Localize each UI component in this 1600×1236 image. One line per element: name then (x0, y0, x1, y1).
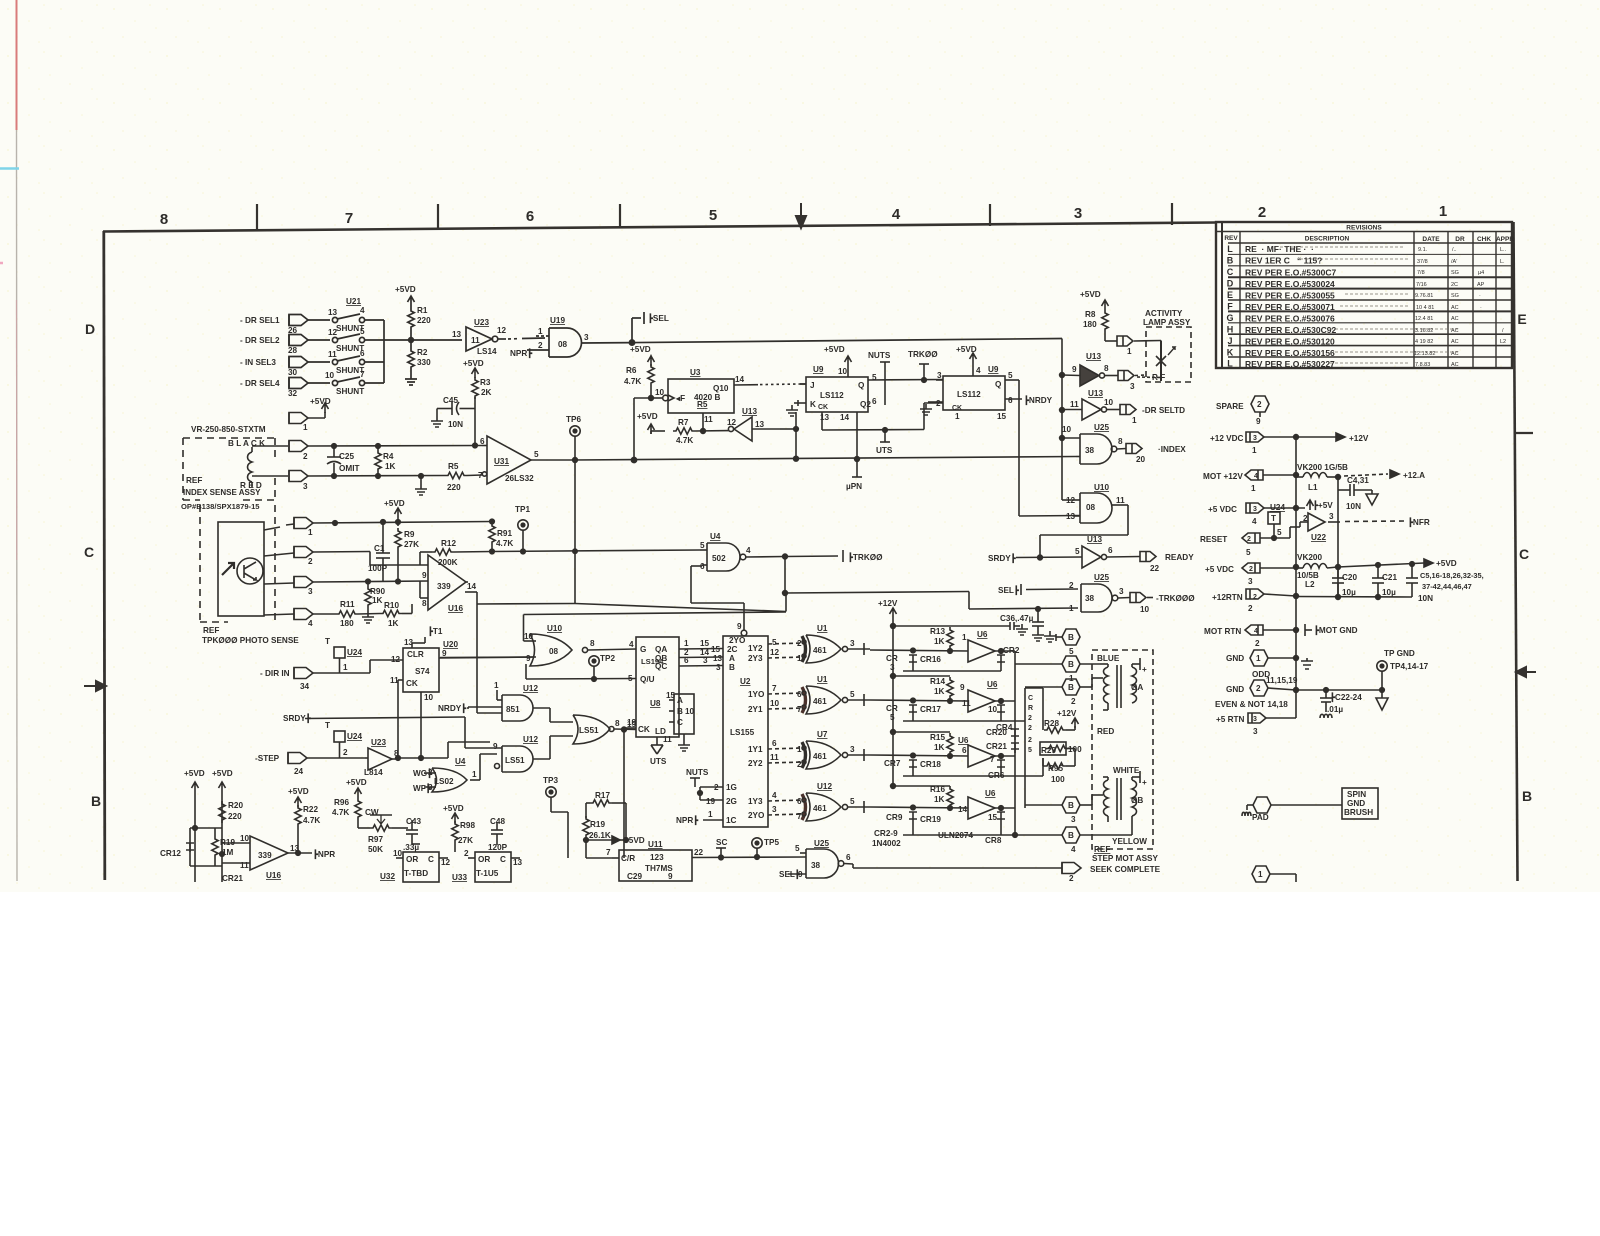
svg-text:4.7K: 4.7K (676, 436, 693, 445)
svg-text:U24: U24 (347, 648, 362, 657)
OR gate U10 08 (440, 612, 786, 666)
svg-text:100: 100 (1051, 775, 1065, 784)
svg-text:5: 5 (709, 207, 717, 224)
svg-text:-DR SELTD: -DR SELTD (1142, 406, 1185, 415)
svg-text:15: 15 (666, 691, 676, 700)
svg-text:B: B (1068, 660, 1074, 669)
svg-text:9.76.81: 9.76.81 (1415, 293, 1433, 299)
ruler arrow down at col 4/5 (796, 203, 806, 228)
svg-text:10: 10 (424, 693, 434, 702)
svg-text:1G: 1G (726, 783, 737, 792)
svg-text:1: 1 (1252, 446, 1257, 455)
svg-text:13: 13 (513, 858, 523, 867)
svg-text:K: K (810, 400, 816, 409)
svg-text:SRDY┣: SRDY┣ (988, 553, 1017, 564)
svg-text:GND: GND (1226, 685, 1244, 694)
svg-text:7: 7 (990, 755, 995, 764)
test point TP3 (546, 787, 568, 858)
svg-text:2: 2 (1303, 514, 1308, 523)
svg-text:+12V: +12V (1057, 709, 1077, 718)
photo transistor box (218, 522, 264, 616)
XOR gate U7a 461 (802, 741, 870, 769)
svg-text:8: 8 (615, 719, 620, 728)
svg-text:UTS: UTS (876, 446, 893, 455)
svg-text:5: 5 (872, 373, 877, 382)
svg-text:U1: U1 (817, 675, 828, 684)
svg-text:2: 2 (1255, 639, 1260, 648)
svg-text:6: 6 (846, 853, 851, 862)
one-shot U33 (468, 852, 520, 882)
dashed box index sense assy (183, 438, 275, 500)
svg-text:6: 6 (480, 437, 485, 446)
svg-text:10: 10 (325, 371, 335, 380)
svg-text:SPIN: SPIN (1347, 790, 1366, 799)
svg-text:34: 34 (300, 682, 310, 691)
svg-text:U25: U25 (1094, 423, 1109, 432)
svg-text:1: 1 (1251, 484, 1256, 493)
wire row1 to R9 top (313, 520, 492, 526)
svg-text:9: 9 (442, 649, 447, 658)
svg-text:U4: U4 (710, 532, 721, 541)
svg-text:6: 6 (772, 739, 777, 748)
svg-text:2YO: 2YO (748, 811, 765, 820)
svg-text:2: 2 (1249, 566, 1253, 573)
svg-text:F: F (1227, 302, 1233, 312)
svg-text:6: 6 (797, 797, 802, 806)
svg-text:WHITE: WHITE (1113, 766, 1140, 775)
NAND gate U4 502 (700, 543, 787, 571)
svg-text:NUTS: NUTS (686, 768, 709, 777)
svg-text:Q: Q (858, 381, 865, 390)
svg-text:4.7K: 4.7K (332, 808, 349, 817)
connector MOT+12V (1245, 470, 1296, 480)
svg-text:+: + (1142, 778, 1147, 787)
svg-text:·: · (1479, 293, 1481, 299)
svg-text:461: 461 (813, 697, 827, 706)
svg-text:B L A C K: B L A C K (228, 439, 265, 448)
scanner edge stripe (0, 0, 19, 881)
wire UTS row (822, 403, 943, 442)
pot R97 50K (370, 815, 408, 831)
svg-text:SHUNT: SHUNT (336, 344, 364, 353)
svg-text:R95: R95 (1048, 764, 1063, 773)
svg-text:1K: 1K (385, 462, 396, 471)
node SEL riser (629, 312, 644, 345)
vertical CR22-25 note (1028, 695, 1033, 754)
svg-text:4: 4 (360, 306, 365, 315)
svg-text:13: 13 (328, 308, 338, 317)
svg-text:U13: U13 (1086, 352, 1101, 361)
svg-text:R28: R28 (1044, 719, 1059, 728)
svg-text:RE · MF· THE · ·: RE · MF· THE · · (1245, 244, 1314, 254)
svg-text:VR-250-850-STXTM: VR-250-850-STXTM (191, 425, 266, 434)
svg-text:3: 3 (716, 663, 721, 672)
ruler ticks (257, 203, 1533, 433)
svg-text:L1: L1 (1308, 483, 1318, 492)
svg-text:TP5: TP5 (764, 838, 779, 847)
svg-text:32: 32 (288, 389, 298, 398)
svg-text:12: 12 (727, 418, 737, 427)
diode CR12 loop (186, 828, 222, 866)
svg-text:3: 3 (1329, 512, 1334, 521)
svg-text:L2: L2 (1305, 580, 1315, 589)
svg-text:2: 2 (343, 748, 348, 757)
svg-text:10: 10 (685, 707, 695, 716)
svg-text:R90: R90 (370, 587, 385, 596)
comparator U16 339 (428, 555, 468, 610)
svg-text:RESET: RESET (1200, 535, 1227, 544)
svg-text:C36,.47µ: C36,.47µ (1000, 614, 1034, 623)
svg-text:REV PER E.O.#530156: REV PER E.O.#530156 (1245, 348, 1335, 358)
svg-text:+5VD: +5VD (1436, 559, 1457, 568)
svg-text:B: B (677, 707, 683, 716)
svg-text:461: 461 (813, 804, 827, 813)
XOR gate U1a 461 (802, 635, 870, 663)
svg-text:U10: U10 (547, 624, 562, 633)
svg-text:+5VD: +5VD (463, 359, 484, 368)
svg-text:851: 851 (506, 705, 520, 714)
svg-text:6: 6 (684, 656, 689, 665)
svg-text:U13: U13 (1088, 389, 1103, 398)
wire U16 out down-tee (465, 592, 786, 713)
svg-text:502: 502 (712, 554, 726, 563)
svg-text:10: 10 (240, 834, 250, 843)
svg-text:7.8.83: 7.8.83 (1415, 362, 1430, 368)
spare connector (1251, 396, 1269, 417)
svg-text:- DR SEL4: - DR SEL4 (240, 379, 280, 388)
svg-text:22: 22 (694, 848, 704, 857)
svg-text:10: 10 (655, 388, 665, 397)
svg-text:C: C (428, 855, 434, 864)
svg-text:2: 2 (1248, 604, 1253, 613)
svg-text:LS155: LS155 (730, 728, 755, 737)
svg-text:2: 2 (428, 768, 433, 777)
svg-text:MOT RTN: MOT RTN (1204, 627, 1241, 636)
svg-text:TP3: TP3 (543, 776, 558, 785)
decoder U2 LS155 (691, 566, 803, 827)
svg-text:REF: REF (186, 476, 202, 485)
svg-text:µ4: µ4 (1478, 270, 1484, 276)
resistor R17 (586, 800, 626, 840)
coil index sensor (248, 447, 253, 487)
svg-text:U13: U13 (1087, 535, 1102, 544)
svg-text:CR21: CR21 (222, 874, 243, 883)
svg-text:1: 1 (1069, 604, 1074, 613)
svg-text:50K: 50K (368, 845, 383, 854)
svg-text:CR21: CR21 (986, 742, 1007, 751)
svg-text:27K: 27K (458, 836, 473, 845)
svg-text:Q/U: Q/U (640, 675, 655, 684)
svg-text:3: 3 (1253, 716, 1257, 723)
T-box U24d (1268, 512, 1280, 540)
svg-text:+5 VDC: +5 VDC (1208, 505, 1237, 514)
svg-text:1: 1 (1439, 203, 1447, 220)
resistor R1 220 (408, 296, 415, 340)
svg-text:5: 5 (850, 690, 855, 699)
svg-text:B: B (1522, 788, 1532, 804)
connector J1-26 -DR SEL1 (289, 315, 330, 326)
svg-text:100: 100 (1068, 745, 1082, 754)
svg-text:T-TBD: T-TBD (404, 869, 428, 878)
svg-text:-TRKØØØ: -TRKØØØ (1156, 594, 1195, 603)
svg-text:R5: R5 (697, 400, 708, 409)
svg-text:3: 3 (1071, 815, 1076, 824)
svg-text:A: A (729, 654, 735, 663)
svg-text:14: 14 (840, 413, 850, 422)
svg-text:L2: L2 (1500, 339, 1506, 345)
sub box ABCD (669, 694, 694, 751)
svg-text:220: 220 (228, 812, 242, 821)
svg-text:9: 9 (960, 683, 965, 692)
svg-text:- DIR IN: - DIR IN (260, 669, 290, 678)
resistor R20 220 (219, 801, 225, 823)
svg-text:U9: U9 (988, 365, 999, 374)
svg-text:15: 15 (997, 412, 1007, 421)
svg-text:READY: READY (1165, 553, 1194, 562)
svg-text:10: 10 (1104, 398, 1114, 407)
svg-text:5: 5 (1246, 548, 1251, 557)
svg-text:B: B (1068, 801, 1074, 810)
svg-text:C25: C25 (339, 452, 354, 461)
svg-text:+5 VDC: +5 VDC (1205, 565, 1234, 574)
svg-text:+12V: +12V (878, 599, 898, 608)
svg-text:8: 8 (394, 749, 399, 758)
flip-flop U9a LS112 (786, 356, 943, 430)
svg-text:1N4002: 1N4002 (872, 839, 901, 848)
svg-text:U6: U6 (987, 680, 998, 689)
svg-text:7: 7 (606, 848, 611, 857)
svg-text:2: 2 (1257, 400, 1262, 409)
svg-text:7: 7 (797, 812, 802, 821)
svg-text:BRUSH: BRUSH (1344, 808, 1373, 817)
connector J1-30 -IN SEL3 (289, 357, 330, 368)
svg-text:RED: RED (1097, 727, 1114, 736)
svg-text:REV: REV (1224, 235, 1238, 242)
NAND gate U25a 38 (1081, 584, 1153, 612)
svg-text:8: 8 (422, 599, 427, 608)
svg-text:38: 38 (811, 861, 821, 870)
svg-text:◂F: ◂F (675, 394, 685, 403)
svg-text:CLR: CLR (407, 650, 424, 659)
svg-text:REV PER E.O.#5300C7: REV PER E.O.#5300C7 (1245, 268, 1336, 278)
svg-text:1: 1 (955, 412, 960, 421)
svg-text:G: G (1226, 313, 1233, 323)
svg-text:C43: C43 (406, 817, 421, 826)
svg-text:+5VD: +5VD (310, 397, 331, 406)
svg-text:9: 9 (798, 870, 803, 879)
svg-text:ØA: ØA (1131, 683, 1143, 692)
svg-text:REV PER E.O.#530071: REV PER E.O.#530071 (1245, 302, 1335, 312)
svg-text:1M: 1M (222, 848, 234, 857)
svg-text:SHUNT: SHUNT (336, 366, 364, 375)
svg-text:11,15,19: 11,15,19 (1266, 676, 1298, 685)
svg-text:U11: U11 (648, 840, 663, 849)
capacitor C36 gnd (1032, 607, 1044, 641)
svg-text:2: 2 (797, 639, 802, 648)
svg-text:┣SEL: ┣SEL (648, 313, 669, 324)
svg-text:R1: R1 (417, 306, 428, 315)
svg-text:3: 3 (937, 371, 942, 380)
svg-text:2: 2 (936, 399, 941, 408)
svg-text:REF: REF (1094, 845, 1110, 854)
svg-text:.33µ: .33µ (403, 843, 419, 852)
svg-text:339: 339 (437, 582, 451, 591)
svg-text:2: 2 (1069, 874, 1074, 883)
svg-text:3: 3 (1253, 435, 1257, 442)
svg-text:REV PER E.O.#530024: REV PER E.O.#530024 (1245, 279, 1335, 289)
capacitor C22-24 (1320, 690, 1332, 718)
svg-text:R19: R19 (590, 820, 605, 829)
svg-text:10N: 10N (1346, 502, 1361, 511)
revisions table (1216, 222, 1512, 368)
pad spin gnd brush (1242, 788, 1378, 819)
svg-text:┣NFR: ┣NFR (1408, 517, 1430, 528)
svg-text:19: 19 (706, 797, 716, 806)
driver row3 (870, 732, 1043, 776)
svg-text:6: 6 (1008, 396, 1013, 405)
svg-text:L814: L814 (364, 768, 383, 777)
svg-text:10µ: 10µ (1342, 588, 1356, 597)
buffer U22 (1300, 513, 1405, 531)
svg-text:1K: 1K (934, 743, 945, 752)
svg-text:L.: L. (1500, 259, 1505, 265)
svg-text:U21: U21 (346, 297, 361, 306)
+12V bus (890, 608, 897, 788)
inverter U13b dr-seltd (1062, 399, 1136, 420)
svg-text:4 19 82: 4 19 82 (1415, 339, 1433, 345)
svg-text:CR: CR (886, 704, 898, 713)
connector pin1 +5vd (289, 403, 329, 424)
svg-text:330: 330 (417, 358, 431, 367)
svg-text:R6: R6 (626, 366, 637, 375)
svg-text:5: 5 (628, 674, 633, 683)
svg-text:9: 9 (1256, 417, 1261, 426)
svg-text:E: E (1517, 311, 1526, 327)
svg-text:3: 3 (850, 745, 855, 754)
svg-text:D: D (1227, 279, 1234, 289)
resistor R6 4.7K (648, 356, 655, 400)
svg-text:+: + (1142, 665, 1147, 674)
svg-text:GND: GND (1226, 654, 1244, 663)
wire U10b to ready node (1040, 505, 1128, 558)
svg-text:4: 4 (892, 206, 901, 223)
svg-text:U1: U1 (817, 624, 828, 633)
svg-text:7/8: 7/8 (1417, 270, 1425, 276)
svg-text:2: 2 (464, 849, 469, 858)
svg-text:24: 24 (294, 767, 304, 776)
svg-text:3: 3 (584, 333, 589, 342)
svg-text:STEP MOT ASSY: STEP MOT ASSY (1092, 854, 1159, 863)
wire U20 ck riser (396, 680, 401, 760)
svg-text:1K: 1K (934, 687, 945, 696)
svg-text:G: G (640, 645, 646, 654)
svg-text:12: 12 (497, 326, 507, 335)
svg-text:AC: AC (1451, 362, 1459, 368)
svg-text:REV PER E.O.#530055: REV PER E.O.#530055 (1245, 291, 1335, 301)
svg-text:U4: U4 (455, 757, 466, 766)
svg-text:CR9: CR9 (886, 813, 903, 822)
svg-text:11: 11 (471, 336, 480, 345)
capacitor C48 120P (491, 822, 503, 845)
svg-text:R5: R5 (448, 462, 459, 471)
AND gate U19 08 (527, 328, 632, 357)
resistor R91 4.7K (489, 519, 495, 554)
svg-text:2K: 2K (481, 388, 492, 397)
svg-text:2: 2 (1071, 697, 1076, 706)
svg-text:3: 3 (1253, 506, 1257, 513)
svg-text:6: 6 (962, 746, 967, 755)
inverter U13a lamp (1062, 365, 1146, 386)
svg-text:1: 1 (1256, 654, 1261, 663)
svg-text:R29: R29 (1041, 746, 1056, 755)
svg-text:1C: 1C (726, 816, 737, 825)
svg-text:C20: C20 (1342, 573, 1357, 582)
svg-text:+12V: +12V (1349, 434, 1369, 443)
svg-text:U7: U7 (817, 730, 828, 739)
svg-text:CR2-9: CR2-9 (874, 829, 898, 838)
svg-text:9: 9 (668, 872, 673, 881)
svg-text:R98: R98 (460, 821, 475, 830)
connector pin2 black (252, 441, 308, 452)
svg-text:339: 339 (258, 851, 272, 860)
svg-text:R8: R8 (1085, 310, 1096, 319)
resistor R9 27K (395, 508, 402, 582)
svg-text:9.1.: 9.1. (1418, 247, 1428, 253)
svg-text:CK: CK (406, 679, 418, 688)
svg-text:CR2: CR2 (1003, 646, 1020, 655)
svg-text:+5VD: +5VD (288, 787, 309, 796)
svg-text:08: 08 (1086, 503, 1096, 512)
svg-text:TPKØØØ PHOTO SENSE: TPKØØØ PHOTO SENSE (202, 636, 299, 645)
svg-text:5: 5 (534, 450, 539, 459)
svg-text:1: 1 (1069, 674, 1074, 683)
svg-text:2: 2 (1028, 725, 1032, 732)
svg-text:BLUE: BLUE (1097, 654, 1120, 663)
IC U3 4020B (668, 379, 806, 413)
svg-text:D: D (85, 321, 95, 337)
svg-text:2G: 2G (726, 797, 737, 806)
svg-text:R16: R16 (930, 785, 945, 794)
connector +12VDC (1246, 432, 1345, 442)
svg-text:10N: 10N (448, 420, 463, 429)
svg-text:A: A (677, 696, 683, 705)
svg-text:4: 4 (308, 619, 313, 628)
svg-text:3: 3 (1253, 727, 1258, 736)
svg-text:- DR SEL2: - DR SEL2 (240, 336, 280, 345)
connector +5RTN (1248, 713, 1296, 723)
transformer phase A (1100, 658, 1140, 710)
svg-text:CR8: CR8 (985, 836, 1002, 845)
svg-text:U22: U22 (1311, 533, 1326, 542)
svg-text:6: 6 (797, 690, 802, 699)
svg-text:SG: SG (1451, 293, 1459, 299)
svg-text:461: 461 (813, 752, 827, 761)
svg-text:OP#B138/SPX1879-15: OP#B138/SPX1879-15 (181, 502, 260, 511)
test point TP5 (752, 838, 762, 860)
svg-text:+5VD: +5VD (384, 499, 405, 508)
wire TRK00 stub (919, 364, 929, 380)
svg-text:11: 11 (704, 415, 713, 424)
svg-text:08: 08 (558, 340, 568, 349)
svg-text:15: 15 (700, 639, 710, 648)
svg-text:R12: R12 (441, 539, 456, 548)
svg-text:220: 220 (447, 483, 461, 492)
test point TP2 (526, 656, 636, 682)
wire NUTS stub U2 (690, 778, 700, 787)
svg-text:5: 5 (1277, 528, 1282, 537)
+5VD rails left (192, 782, 226, 882)
svg-text:2YO: 2YO (729, 636, 746, 645)
